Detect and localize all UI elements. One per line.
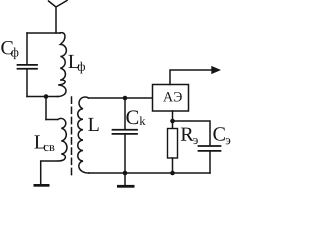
- capacitor C1 (Cф): [18, 65, 38, 69]
- capacitor C3 (Cэ): [199, 146, 221, 151]
- inductor L2 (Lсв) coupling coil: [46, 118, 67, 161]
- label Cэ: [213, 127, 230, 144]
- antenna: [49, 1, 68, 34]
- node junction ground: [123, 171, 128, 176]
- ground (center): [124, 173, 126, 185]
- wire Rэ top lead: [172, 121, 174, 129]
- label Ck: [126, 110, 145, 125]
- wire from junction down to coupling coil: [45, 97, 47, 120]
- label Lсв: [34, 135, 54, 151]
- wire left branch lower: [26, 70, 28, 97]
- wire top rail right: [89, 97, 153, 99]
- wire bottom rail of input LC loop: [27, 96, 58, 98]
- wire coupling coil to ground: [41, 161, 57, 184]
- wire АЭ bottom stub: [172, 111, 174, 121]
- node junction Ck top: [123, 96, 128, 101]
- inductor L1 (Lф): [58, 33, 67, 97]
- wire left branch upper: [26, 33, 28, 64]
- ground (left): [34, 184, 50, 187]
- label L: [88, 118, 98, 131]
- wire Rэ bottom lead: [172, 158, 174, 173]
- label Lф: [68, 55, 85, 73]
- block U1 (АЭ active element): [153, 85, 189, 112]
- wire to Cэ top: [173, 121, 211, 145]
- wire Ck lower: [124, 135, 126, 173]
- wire top rail of input LC loop: [27, 32, 60, 34]
- node junction emitter: [170, 119, 175, 124]
- label Cф: [1, 41, 18, 59]
- capacitor C2 (Ck): [113, 130, 138, 134]
- label Rэ: [181, 128, 198, 145]
- node junction below LC loop: [44, 94, 49, 99]
- wire Ck upper: [124, 98, 126, 129]
- inductor L3 (L) secondary tuned coil: [78, 97, 89, 173]
- transformer core: [71, 97, 73, 178]
- node junction bottom: [170, 171, 175, 176]
- resistor R1 (Rэ): [168, 129, 178, 159]
- wire Cэ lower: [209, 152, 211, 174]
- wire output with arrow: [170, 70, 213, 85]
- wire bottom rail right: [89, 172, 210, 174]
